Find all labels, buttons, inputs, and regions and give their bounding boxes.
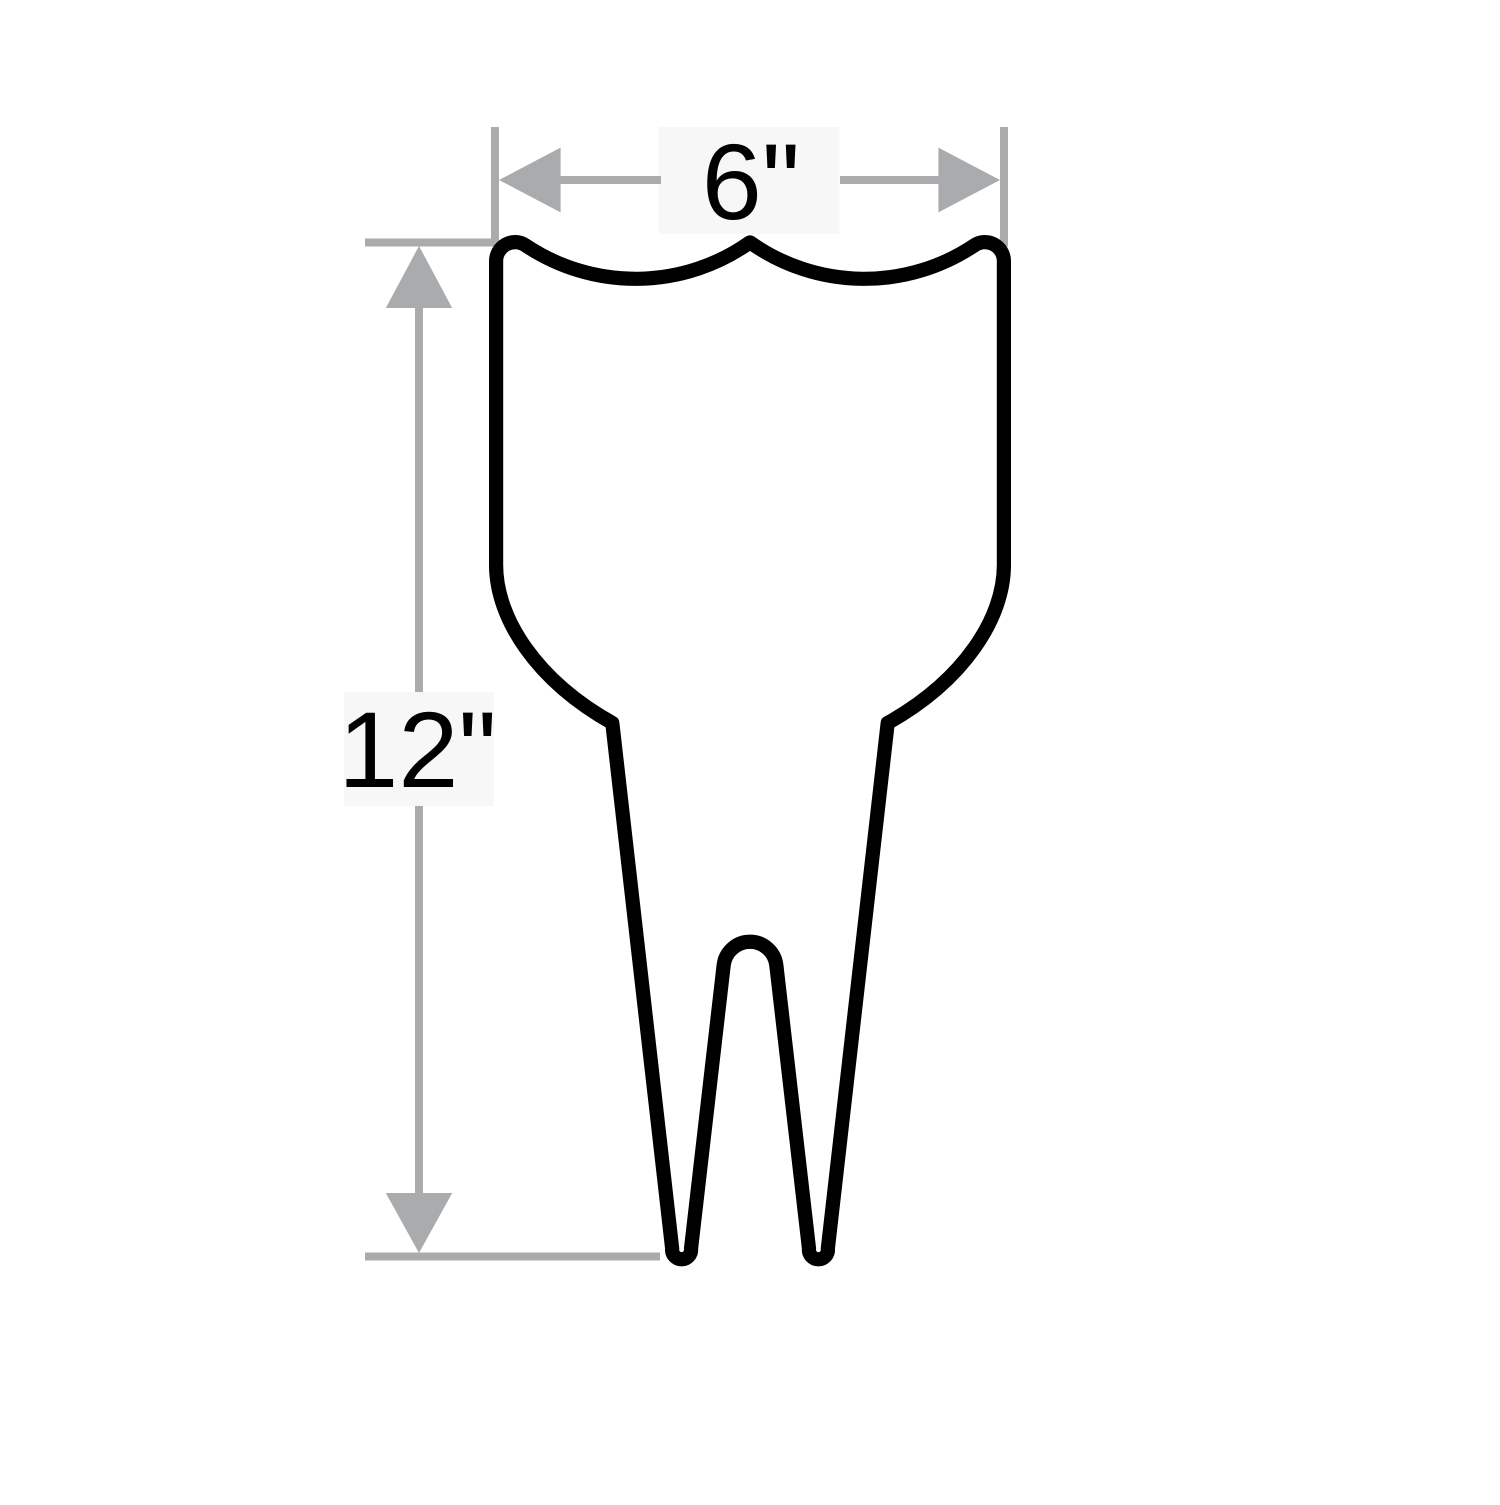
arrowhead up (12in) xyxy=(386,246,452,308)
arrowhead down (12in) xyxy=(386,1193,452,1253)
dim line 12in bottom segment xyxy=(415,806,423,1194)
svg-text:6": 6" xyxy=(702,121,800,242)
extension line left (6in dim) xyxy=(491,127,499,247)
svg-text:12": 12" xyxy=(338,689,496,810)
dim line 6in left segment xyxy=(557,176,661,184)
arrowhead right (6in) xyxy=(938,148,1000,213)
arrowhead left (6in) xyxy=(499,148,561,213)
label box 6in xyxy=(659,127,840,234)
extension line bottom (12in dim) xyxy=(365,1253,660,1261)
marker outline shape xyxy=(496,242,1004,1259)
extension line right (6in dim) xyxy=(1000,127,1008,247)
dim line 12in top segment xyxy=(415,305,423,692)
extension line top (12in dim) xyxy=(365,239,499,247)
dim line 6in right segment xyxy=(840,176,941,184)
label box 12in xyxy=(344,692,494,806)
